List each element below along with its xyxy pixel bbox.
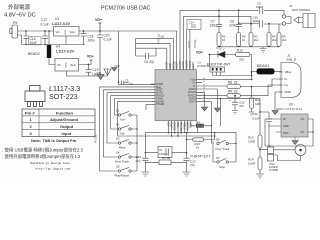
switch S6 Prev Track <box>216 138 237 151</box>
wires chip left pins to switch bus <box>100 87 151 171</box>
svg-text:Note: TAB is Output Pin: Note: TAB is Output Pin <box>31 138 77 143</box>
ferrite bead BEAD1 <box>257 64 282 74</box>
ground mid bus <box>112 66 119 71</box>
svg-text:Mute: Mute <box>119 146 126 150</box>
svg-text:Output: Output <box>60 124 74 129</box>
svg-text:R6: R6 <box>272 35 276 39</box>
bus label P3 <box>94 134 98 143</box>
svg-text:10uF: 10uF <box>30 41 37 45</box>
svg-text:VD+: VD+ <box>87 55 94 59</box>
chip U2 <box>276 103 313 138</box>
ferrite bead BEAD2 <box>28 45 55 65</box>
ground DGND <box>214 108 220 112</box>
svg-text:L1117-3.3V: L1117-3.3V <box>52 22 71 26</box>
svg-text:S2: S2 <box>116 123 120 127</box>
ground U2 <box>294 137 296 140</box>
svg-text:外部電源: 外部電源 <box>8 3 31 11</box>
capacitor C19 <box>86 64 102 77</box>
crystal can <box>274 145 307 161</box>
svg-text:Vol+: Vol+ <box>120 118 126 122</box>
resistor R9 <box>202 85 281 98</box>
svg-text:S3: S3 <box>116 137 120 141</box>
svg-text:S7: S7 <box>216 156 220 160</box>
svg-text:2k2: 2k2 <box>254 38 259 42</box>
regulator U3 L1117-3.3V <box>52 17 79 45</box>
chip top pins <box>167 65 193 70</box>
svg-text:Vout: Vout <box>70 30 76 34</box>
wire FUNC0 to ground <box>202 92 205 106</box>
svg-text:VBus: VBus <box>285 70 292 74</box>
svg-text:16: 16 <box>242 38 245 42</box>
resistor R10 <box>186 132 216 150</box>
capacitor C4 rotated <box>157 34 165 44</box>
resistor R14 <box>248 148 268 178</box>
junction dots power rail <box>25 30 46 45</box>
junction dots <box>218 9 270 24</box>
svg-text:IN: IN <box>283 117 286 121</box>
svg-text:R5: R5 <box>282 35 286 39</box>
svg-text:U3: U3 <box>55 17 59 21</box>
switch S5 Play/Pause <box>115 165 138 178</box>
wire VD+ bus down <box>119 31 156 85</box>
chip right pins <box>197 79 203 101</box>
svg-text:R9_22: R9_22 <box>228 90 238 94</box>
rail L1 <box>180 10 258 64</box>
wire switches to bus <box>235 133 237 162</box>
crystal X1 <box>145 133 188 158</box>
svg-text:16: 16 <box>222 38 225 42</box>
LED D1 <box>216 46 236 58</box>
svg-text:47u: 47u <box>239 104 244 108</box>
switch common bus <box>136 115 138 171</box>
header P4 xtal select <box>268 146 279 172</box>
resistor R5 <box>277 33 287 47</box>
svg-text:100R: 100R <box>248 162 256 166</box>
bottom bus wires <box>168 126 187 136</box>
svg-text:Modified by George Iain.: Modified by George Iain. <box>30 161 72 165</box>
switch S1 Vol+ <box>116 109 137 122</box>
svg-text:GND: GND <box>283 124 289 128</box>
ground rail power section <box>22 44 86 46</box>
svg-text:Function: Function <box>56 110 73 115</box>
capacitor C2 rotated label <box>187 41 191 48</box>
svg-text:27p: 27p <box>136 159 141 163</box>
svg-text:0.1uF: 0.1uF <box>253 117 261 121</box>
chip left pin labels <box>156 83 165 106</box>
jack J1 stereo <box>282 4 315 28</box>
svg-text:0.1uF: 0.1uF <box>104 38 112 42</box>
svg-text:2k2: 2k2 <box>272 38 277 42</box>
svg-text:27p: 27p <box>190 163 195 167</box>
svg-text:SOT-223: SOT-223 <box>49 92 78 101</box>
svg-text:220u: 220u <box>229 24 236 28</box>
chip U1 PCM2706 body <box>155 61 210 121</box>
svg-text:Vin: Vin <box>57 63 61 67</box>
resistor R8 <box>202 79 281 89</box>
resistor R3 <box>249 33 259 47</box>
svg-text:Adjust/Ground: Adjust/Ground <box>50 117 79 122</box>
chip right pin labels <box>188 78 205 104</box>
pin function table <box>22 109 95 143</box>
svg-text:U4: U4 <box>56 45 60 49</box>
svg-text:GND: GND <box>285 90 291 94</box>
chip bottom pin labels <box>166 122 192 131</box>
svg-text:4.8V~6V DC: 4.8V~6V DC <box>4 13 36 19</box>
wire U2 loop <box>265 119 313 146</box>
svg-text:C4 0.1u: C4 0.1u <box>157 34 161 44</box>
resistor R6 <box>267 33 277 47</box>
ground under C20 <box>97 75 104 80</box>
resistor R12 <box>236 48 253 75</box>
svg-text:330: 330 <box>239 58 244 62</box>
svg-text:BEAD1: BEAD1 <box>257 64 269 68</box>
svg-text:R12: R12 <box>237 48 243 52</box>
ground USB <box>272 111 278 115</box>
svg-text:Vol-: Vol- <box>120 132 125 136</box>
capacitor C10 <box>253 16 283 28</box>
svg-text:C14: C14 <box>189 21 194 25</box>
wire Vbus row <box>202 71 257 79</box>
svg-text:220u: 220u <box>210 24 217 28</box>
capacitor C3 <box>122 81 130 85</box>
chip top pin numbers <box>166 63 193 65</box>
svg-text:Stop: Stop <box>219 165 225 169</box>
wire VD+ rail to chip area <box>100 30 119 32</box>
svg-text:15: 15 <box>203 81 205 83</box>
wire top pins up <box>119 31 177 65</box>
capacitor C12 <box>136 155 150 176</box>
svg-text:GND: GND <box>65 29 67 34</box>
wire DOUT down to JP2 <box>202 102 211 126</box>
wire U4 output / node VD+ <box>79 55 94 65</box>
svg-text:S1: S1 <box>116 109 120 113</box>
capacitor C11 <box>253 111 273 146</box>
switch S7 Stop <box>213 141 236 169</box>
capacitor C18 <box>81 30 95 44</box>
svg-text:C5 10u: C5 10u <box>193 39 197 48</box>
label P-INT/P-EXT <box>191 155 211 159</box>
resistor R1 <box>217 33 226 47</box>
svg-text:Pin #: Pin # <box>25 110 35 115</box>
svg-text:http://gc.digitx.com: http://gc.digitx.com <box>36 166 71 170</box>
svg-text:. 使用 USB電源 時移2個Jumper部份在2.3: . 使用 USB電源 時移2個Jumper部份在2.3 <box>2 146 84 153</box>
svg-text:R4: R4 <box>242 35 246 39</box>
bead2 branch wire <box>48 31 50 45</box>
svg-text:VD+: VD+ <box>95 18 102 22</box>
resistor R4 <box>237 33 246 47</box>
svg-text:GND: GND <box>65 62 67 67</box>
rail L2 <box>183 16 251 64</box>
wire PGND to R13 chain <box>202 99 260 135</box>
capacitor C8 <box>229 20 242 28</box>
wire jack gnd <box>18 35 22 45</box>
capacitor C15 <box>229 95 245 115</box>
svg-text:P5: P5 <box>13 21 17 25</box>
svg-text:Input: Input <box>62 131 72 136</box>
svg-text:C2 1u: C2 1u <box>187 41 191 48</box>
wire USB gnd <box>275 92 281 110</box>
svg-text:VCCC: VCCC <box>191 61 195 68</box>
svg-text:DOUT: DOUT <box>189 101 196 104</box>
capacitor C9 <box>256 2 284 15</box>
svg-text:S4: S4 <box>116 151 120 155</box>
svg-text:HC: HC <box>301 117 305 121</box>
jumper P1 <box>207 55 252 76</box>
svg-text:SN74 1 4 5 9 10 12 13: SN74 1 4 5 9 10 12 13 <box>276 107 303 111</box>
svg-text:Prev Track: Prev Track <box>216 147 230 151</box>
svg-text:S5: S5 <box>116 165 120 169</box>
resistor R15 <box>145 156 186 165</box>
svg-text:P-INT/P-EXT: P-INT/P-EXT <box>191 155 211 159</box>
svg-text:R8_22: R8_22 <box>228 80 238 84</box>
resistor R11 <box>249 86 262 116</box>
svg-text:BTGND: BTGND <box>156 103 165 106</box>
node VD+ <box>95 18 102 32</box>
wire to cap box <box>187 30 190 65</box>
svg-text:LED: LED <box>216 46 221 50</box>
svg-text:R1: R1 <box>222 35 226 39</box>
wire from jack to regulator rail <box>18 30 54 32</box>
svg-text:C3: C3 <box>125 79 129 83</box>
node VD+ led <box>196 51 218 56</box>
svg-text:C6: C6 <box>144 60 148 64</box>
svg-text:JACK STEREO: JACK STEREO <box>292 8 311 12</box>
svg-text:100u: 100u <box>253 19 260 23</box>
svg-text:100u: 100u <box>88 38 95 42</box>
svg-text:HC: HC <box>301 130 305 134</box>
svg-text:P-EXT/P-INT: P-EXT/P-INT <box>207 62 231 67</box>
USB connector J2 <box>279 54 301 98</box>
svg-text:Next Track: Next Track <box>115 160 129 164</box>
ground FUNC0 <box>201 107 207 111</box>
capacitor C13 <box>183 158 196 177</box>
note text chinese <box>2 146 84 160</box>
verticals to resistors <box>219 10 279 32</box>
svg-text:L1117-3.3V: L1117-3.3V <box>56 50 75 54</box>
svg-text:2k2: 2k2 <box>282 38 287 42</box>
svg-text:BEAD2: BEAD2 <box>28 52 40 56</box>
svg-text:. 使用外部電源時移2個Jumper部份在1.2: . 使用外部電源時移2個Jumper部份在1.2 <box>2 153 81 160</box>
svg-text:PCM2706 USB DAC: PCM2706 USB DAC <box>101 6 151 12</box>
svg-text:D+: D+ <box>285 83 289 87</box>
wire U3 output <box>79 30 100 32</box>
svg-text:Vout: Vout <box>70 63 76 67</box>
capacitor C20 <box>96 31 111 74</box>
svg-text:Play/Pause: Play/Pause <box>115 174 130 178</box>
switch S2 Vol- <box>116 123 137 136</box>
wire FUNC1 drop <box>219 99 221 126</box>
audio ground rail <box>219 46 279 48</box>
capacitor C16 <box>24 31 42 45</box>
package drawing L1117 SOT-223 <box>25 86 45 107</box>
svg-text:Vin: Vin <box>56 30 60 34</box>
svg-text:TO39B: TO39B <box>269 168 278 172</box>
svg-text:OSC: OSC <box>283 131 289 135</box>
svg-text:U2: U2 <box>289 103 293 107</box>
svg-text:100R: 100R <box>248 140 256 144</box>
capacitor C6 <box>136 48 157 64</box>
regulator U4 L1117-3.3V <box>55 45 89 77</box>
rails into chip top <box>136 38 174 48</box>
svg-text:P3 S2: P3 S2 <box>94 134 98 143</box>
chip left pins <box>151 84 156 104</box>
svg-text:+: + <box>229 99 231 103</box>
capacitor C7 <box>210 20 223 28</box>
svg-text:R3: R3 <box>254 35 258 39</box>
chip top pin labels <box>165 60 195 69</box>
switch S3 Mute <box>116 137 137 150</box>
capacitor C17 <box>41 18 49 45</box>
svg-text:S6: S6 <box>216 138 220 142</box>
svg-text:100u: 100u <box>256 5 263 9</box>
svg-text:USB_B: USB_B <box>286 58 296 62</box>
jumper JP2 <box>191 120 212 143</box>
resistor R13 <box>248 135 262 148</box>
wire DGND to ground <box>202 89 217 108</box>
svg-text:VD+: VD+ <box>196 51 203 55</box>
svg-text:47p: 47p <box>149 60 155 64</box>
ground (power section) <box>89 69 108 76</box>
boxed capacitor C14 <box>187 20 201 30</box>
switch S4 Next Track <box>115 151 137 164</box>
credit text <box>30 161 72 170</box>
svg-text:J1: J1 <box>289 4 293 8</box>
ground audio <box>260 47 267 53</box>
svg-text:C11: C11 <box>253 112 259 116</box>
label external power <box>4 3 36 25</box>
connector P5 (DC jack) <box>12 25 18 38</box>
svg-text:HID0: HID0 <box>189 122 193 128</box>
svg-text:0.1uF: 0.1uF <box>41 22 49 26</box>
svg-text:R6 1M: R6 1M <box>162 156 171 160</box>
chip bottom pins <box>168 121 190 126</box>
svg-text:D-: D- <box>285 77 288 81</box>
